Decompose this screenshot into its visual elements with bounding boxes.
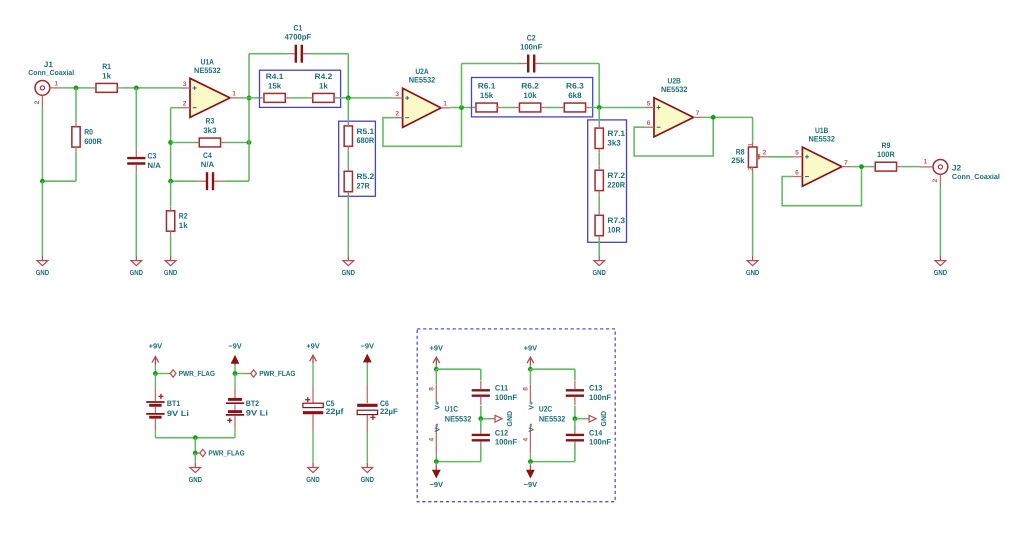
wire R3 right xyxy=(224,142,249,144)
power symbol +9V at BT1 xyxy=(149,341,163,373)
svg-text:3: 3 xyxy=(748,167,755,171)
svg-text:BT1: BT1 xyxy=(167,399,181,408)
svg-text:4: 4 xyxy=(523,438,530,442)
wire rail to pwr flag xyxy=(194,438,196,453)
svg-text:R1: R1 xyxy=(102,62,111,71)
resistor R7.2 xyxy=(595,166,626,195)
svg-text:GND: GND xyxy=(361,475,375,484)
pin 2 label J1 xyxy=(34,100,41,104)
wire C1 right xyxy=(310,53,348,55)
wire C2 right xyxy=(543,63,599,65)
wire U1B out xyxy=(851,166,871,168)
svg-text:100nF: 100nF xyxy=(495,393,517,402)
wire bottom-left to R0 xyxy=(42,180,76,182)
wire R3 left xyxy=(171,142,196,144)
wire R4.1 to R4.2 xyxy=(290,97,309,99)
resistor R0 xyxy=(72,122,102,151)
svg-text:U1C: U1C xyxy=(445,404,459,413)
wire R7.2 to R7.3 xyxy=(598,195,600,211)
op-amp U1A xyxy=(181,58,240,118)
wire C14 bottom xyxy=(574,445,576,462)
capacitor C2 xyxy=(517,34,545,73)
capacitor C4 xyxy=(196,151,224,190)
resistor R5.1 xyxy=(344,122,375,151)
wire C12 top xyxy=(480,419,482,431)
resistor R6.1 xyxy=(472,82,502,112)
resistor R1 xyxy=(92,62,122,92)
wire feedback vertical right xyxy=(248,54,250,182)
ground at R2 xyxy=(164,256,178,277)
capacitor C13 xyxy=(566,381,611,405)
node junction U1B output xyxy=(859,164,864,169)
wire R2 bottom xyxy=(170,236,172,256)
wire R4.2 to U2A xyxy=(338,97,393,99)
svg-text:R0: R0 xyxy=(84,128,93,137)
pin 1 label J1 xyxy=(54,81,58,88)
wire C2 down xyxy=(598,64,600,108)
wire R6.1 to R6.2 xyxy=(502,107,516,109)
svg-text:2: 2 xyxy=(395,111,399,118)
wire flag to GND xyxy=(194,453,196,463)
svg-text:1k: 1k xyxy=(179,221,188,230)
svg-text:C12: C12 xyxy=(495,428,509,437)
wire U1A pin2 stub xyxy=(171,107,181,109)
connector J2 Conn_Coaxial xyxy=(920,160,1000,188)
svg-text:2: 2 xyxy=(763,149,767,156)
capacitor C1 xyxy=(285,24,313,63)
svg-text:C3: C3 xyxy=(148,152,157,161)
node junction C4/R2 xyxy=(168,179,173,184)
power symbol +9V at U2C xyxy=(524,344,538,370)
wire J2 pin2 to GND xyxy=(939,187,941,256)
power flag at BT1 xyxy=(157,369,215,378)
node junction R6.3/R7 xyxy=(597,105,602,110)
svg-text:NE5532: NE5532 xyxy=(409,75,436,84)
svg-text:R9: R9 xyxy=(882,141,891,150)
svg-text:6: 6 xyxy=(795,169,799,176)
svg-text:27R: 27R xyxy=(357,182,371,191)
wire C14 to V- xyxy=(530,461,575,463)
svg-text:6k8: 6k8 xyxy=(568,91,582,100)
node junction U2A output xyxy=(459,105,464,110)
wire R5.2 to GND xyxy=(347,196,349,256)
svg-text:GND: GND xyxy=(130,268,144,277)
wire C1 left xyxy=(249,53,286,55)
wire C13 top xyxy=(574,369,576,380)
svg-text:GND: GND xyxy=(601,411,608,427)
ground arrow at U2C xyxy=(577,411,608,427)
wire R2 top xyxy=(170,181,172,206)
power symbol -9V at U2C xyxy=(524,462,538,489)
svg-text:1k: 1k xyxy=(102,71,111,80)
svg-text:1: 1 xyxy=(443,101,447,108)
wire R0 top xyxy=(75,88,77,122)
svg-text:100nF: 100nF xyxy=(589,438,611,447)
svg-text:1: 1 xyxy=(924,159,928,166)
ground at R8 xyxy=(746,256,760,277)
wire R6.2 to R6.3 xyxy=(545,107,560,109)
box around R7 group xyxy=(588,120,627,242)
node junction U2B output xyxy=(711,115,716,120)
svg-text:5: 5 xyxy=(647,100,651,107)
svg-text:R7.1: R7.1 xyxy=(607,129,625,138)
svg-text:680R: 680R xyxy=(357,136,375,145)
wire C1 down xyxy=(347,54,349,98)
wire R8 to GND xyxy=(752,173,754,256)
svg-text:9V Li: 9V Li xyxy=(167,409,189,418)
dashed box power decoupling xyxy=(417,329,615,502)
node junction rail middle xyxy=(193,435,198,440)
svg-text:3: 3 xyxy=(395,91,399,98)
battery BT2 9V Li xyxy=(226,374,268,438)
resistor R6.2 xyxy=(515,82,545,112)
svg-text:600R: 600R xyxy=(84,137,102,146)
box around R6 group xyxy=(472,78,593,117)
svg-text:−9V: −9V xyxy=(228,341,242,350)
wire C4 left xyxy=(171,180,196,182)
svg-text:V+: V+ xyxy=(435,401,442,410)
svg-text:−9V: −9V xyxy=(430,480,444,489)
wire R0 bottom xyxy=(75,152,77,182)
svg-text:9V Li: 9V Li xyxy=(246,408,268,417)
svg-text:GND: GND xyxy=(164,268,178,277)
svg-text:R6.1: R6.1 xyxy=(478,82,496,91)
svg-text:V−: V− xyxy=(529,423,536,432)
potentiometer R8 xyxy=(731,142,767,173)
ground at C5 xyxy=(306,463,320,484)
resistor R4.2 xyxy=(309,72,339,102)
power symbol +9V at U1C xyxy=(430,344,444,370)
pin 1 label J2 xyxy=(924,159,928,166)
wire R7.1 to R7.2 xyxy=(598,153,600,166)
svg-text:15k: 15k xyxy=(480,91,494,100)
svg-text:C4: C4 xyxy=(203,151,212,160)
svg-text:−9V: −9V xyxy=(524,480,538,489)
ground at C3 xyxy=(130,256,144,277)
capacitor C5 22uF xyxy=(303,370,344,463)
node junction R3 left xyxy=(168,140,173,145)
wire U2A feedback xyxy=(383,108,462,147)
capacitor C6 22uF xyxy=(357,370,398,463)
svg-text:GND: GND xyxy=(189,475,203,484)
svg-text:10k: 10k xyxy=(523,91,537,100)
box around R4 group xyxy=(260,70,341,107)
wire down to R8 xyxy=(752,117,754,141)
svg-text:BT2: BT2 xyxy=(246,399,260,408)
wire C11 to GND node xyxy=(480,406,482,419)
svg-text:4: 4 xyxy=(429,438,436,442)
svg-text:NE5532: NE5532 xyxy=(539,415,566,424)
resistor R2 xyxy=(166,207,188,236)
node junction pwr flag bottom xyxy=(193,451,198,456)
node junction U2C V+ xyxy=(528,367,533,372)
node junction U1C V+ xyxy=(434,367,439,372)
svg-text:GND: GND xyxy=(934,268,948,277)
wire C13 to GND node xyxy=(574,406,576,419)
svg-text:8: 8 xyxy=(429,387,436,391)
svg-text:NE5532: NE5532 xyxy=(194,66,221,75)
op-amp U2A xyxy=(393,67,450,128)
svg-text:R2: R2 xyxy=(179,212,188,221)
svg-text:R5.1: R5.1 xyxy=(357,127,375,136)
svg-text:GND: GND xyxy=(342,268,356,277)
node junction J1/R0/GND xyxy=(40,179,45,184)
svg-text:2: 2 xyxy=(932,179,939,183)
svg-text:100nF: 100nF xyxy=(589,393,611,402)
wire C11 top xyxy=(480,369,482,380)
wire C12 to V- xyxy=(436,461,481,463)
svg-text:NE5532: NE5532 xyxy=(445,415,472,424)
wire U2B out xyxy=(703,116,753,118)
svg-text:3: 3 xyxy=(183,81,187,88)
pin 3 label R8 xyxy=(748,167,755,171)
node junction U1C V- xyxy=(434,459,439,464)
svg-text:25k: 25k xyxy=(731,156,745,165)
pin 2 label R8 xyxy=(763,149,767,156)
svg-text:C13: C13 xyxy=(589,384,603,393)
svg-text:100nF: 100nF xyxy=(520,42,542,51)
node junction R3 right xyxy=(247,140,252,145)
svg-text:7: 7 xyxy=(844,159,848,166)
svg-text:6: 6 xyxy=(647,120,651,127)
svg-text:1k: 1k xyxy=(319,81,328,90)
svg-text:10R: 10R xyxy=(607,226,621,235)
wire U2C V+ to C13 xyxy=(530,368,575,370)
node junction BT1 top xyxy=(153,371,158,376)
svg-text:2: 2 xyxy=(183,101,187,108)
svg-text:2: 2 xyxy=(34,100,41,104)
svg-text:R5.2: R5.2 xyxy=(357,172,375,181)
svg-text:GND: GND xyxy=(36,268,50,277)
svg-text:R3: R3 xyxy=(206,117,215,126)
op-amp power unit U2C NE5532 xyxy=(523,369,566,461)
node junction U1A output xyxy=(247,96,252,101)
wire J1 pin2 down xyxy=(41,108,43,181)
capacitor C14 xyxy=(566,426,611,450)
pin 1 label R8 xyxy=(748,142,755,146)
resistor R7.3 xyxy=(595,211,626,240)
svg-text:R4.1: R4.1 xyxy=(266,72,284,81)
svg-text:PWR_FLAG: PWR_FLAG xyxy=(179,369,215,378)
svg-text:100R: 100R xyxy=(877,150,895,159)
svg-text:PWR_FLAG: PWR_FLAG xyxy=(208,449,244,458)
wire R8 wiper to U1B xyxy=(767,156,793,158)
svg-text:Conn_Coaxial: Conn_Coaxial xyxy=(28,68,74,77)
ground at R7 xyxy=(593,256,607,277)
svg-text:PWR_FLAG: PWR_FLAG xyxy=(259,369,295,378)
wire J1 pin1 to R1 xyxy=(62,87,92,89)
power symbol +9V at C5 xyxy=(306,342,320,370)
svg-text:5: 5 xyxy=(795,150,799,157)
pin 2 label J2 xyxy=(932,179,939,183)
node junction BT2 top xyxy=(233,371,238,376)
resistor R3 xyxy=(195,117,225,147)
svg-text:1: 1 xyxy=(232,91,236,98)
wire feedback vertical U1A xyxy=(170,108,172,182)
svg-text:C14: C14 xyxy=(589,428,603,437)
power symbol -9V at C6 xyxy=(361,342,375,370)
ground arrow at U1C xyxy=(483,411,514,427)
svg-text:Conn_Coaxial: Conn_Coaxial xyxy=(952,172,1000,181)
node junction C13/C14 GND xyxy=(573,416,578,421)
wire U1A out to R4 box xyxy=(239,97,259,99)
wire R6.3 to U2B xyxy=(590,107,645,109)
svg-text:7: 7 xyxy=(696,110,700,117)
op-amp U2B xyxy=(645,77,703,137)
svg-text:+9V: +9V xyxy=(524,344,538,353)
svg-text:R7.3: R7.3 xyxy=(607,216,625,225)
svg-text:R6.3: R6.3 xyxy=(566,82,584,91)
wire C4 right xyxy=(224,180,249,182)
wire R7.3 to GND xyxy=(598,240,600,256)
svg-text:22µf: 22µf xyxy=(326,407,344,416)
svg-text:+9V: +9V xyxy=(430,344,444,353)
power symbol -9V at U1C xyxy=(430,462,444,489)
svg-text:C1: C1 xyxy=(294,24,303,33)
svg-text:4700pF: 4700pF xyxy=(285,33,312,42)
node junction R5 top xyxy=(346,96,351,101)
svg-text:NE5532: NE5532 xyxy=(661,85,688,94)
svg-text:+9V: +9V xyxy=(149,341,163,350)
ground at battery rail xyxy=(189,463,203,484)
svg-text:NE5532: NE5532 xyxy=(808,135,835,144)
wire C2 left xyxy=(462,63,520,65)
capacitor C12 xyxy=(472,426,517,450)
power flag at GND rail xyxy=(197,449,244,458)
svg-text:N/A: N/A xyxy=(201,160,215,169)
wire C14 top xyxy=(574,419,576,431)
resistor R6.3 xyxy=(560,82,590,112)
svg-text:220R: 220R xyxy=(607,181,625,190)
wire junction to GND J1 xyxy=(41,181,43,256)
wire C12 bottom xyxy=(480,445,482,462)
wire battery bottom rail xyxy=(155,437,235,439)
node junction U2C V- xyxy=(528,459,533,464)
capacitor C3 xyxy=(127,149,161,173)
node junction at C3 top xyxy=(134,86,139,91)
wire U2B feedback xyxy=(634,117,713,156)
wire U2A out xyxy=(450,107,472,109)
svg-text:R4.2: R4.2 xyxy=(315,72,333,81)
node junction at R0 top xyxy=(74,86,79,91)
op-amp U1B xyxy=(793,126,851,186)
wire R9 to J2 xyxy=(901,166,920,168)
connector J1 Conn_Coaxial xyxy=(28,60,74,108)
wire U1C V+ to C11 xyxy=(436,368,481,370)
ground at C6 xyxy=(361,463,375,484)
svg-text:−9V: −9V xyxy=(361,342,375,351)
node junction C11/C12 GND xyxy=(478,416,483,421)
svg-text:15k: 15k xyxy=(268,81,282,90)
wire R5 top xyxy=(347,98,349,122)
svg-text:22µF: 22µF xyxy=(380,407,398,416)
svg-text:C2: C2 xyxy=(527,34,536,43)
op-amp power unit U1C NE5532 xyxy=(429,369,472,461)
svg-text:GND: GND xyxy=(306,475,320,484)
power flag at BT2 xyxy=(237,369,296,378)
ground at J2 xyxy=(934,256,948,277)
svg-text:100nF: 100nF xyxy=(495,438,517,447)
svg-text:+9V: +9V xyxy=(306,342,320,351)
svg-text:N/A: N/A xyxy=(148,161,162,170)
capacitor C11 xyxy=(472,381,517,405)
wire R7 top xyxy=(598,108,600,125)
resistor R4.1 xyxy=(260,72,290,102)
svg-text:V+: V+ xyxy=(529,401,536,410)
svg-text:3k3: 3k3 xyxy=(607,138,621,147)
svg-text:R6.2: R6.2 xyxy=(521,82,539,91)
svg-text:GND: GND xyxy=(593,268,607,277)
svg-text:V−: V− xyxy=(435,423,442,432)
wire R5.1 to R5.2 xyxy=(347,151,349,167)
svg-text:1: 1 xyxy=(748,142,755,146)
svg-text:GND: GND xyxy=(746,268,760,277)
wire C3 bottom xyxy=(135,173,137,256)
ground at R5 xyxy=(342,256,356,277)
wire U1B feedback xyxy=(782,167,861,206)
svg-text:8: 8 xyxy=(523,387,530,391)
resistor R9 xyxy=(871,141,901,171)
svg-text:C11: C11 xyxy=(495,384,509,393)
svg-text:R7.2: R7.2 xyxy=(607,171,625,180)
node junction C1/R4.2 xyxy=(346,96,351,101)
wire C3 top xyxy=(135,88,137,149)
ground at J1 xyxy=(36,256,50,277)
svg-text:1: 1 xyxy=(54,81,58,88)
resistor R5.2 xyxy=(344,167,375,196)
resistor R7.1 xyxy=(595,124,626,153)
svg-text:3k3: 3k3 xyxy=(203,126,217,135)
battery BT1 9V Li xyxy=(146,374,189,438)
wire C2 up-left xyxy=(461,64,463,108)
svg-text:U2C: U2C xyxy=(539,404,553,413)
wire R1 to U1A pin3 xyxy=(122,87,181,89)
power symbol -9V at BT2 xyxy=(228,341,242,373)
box around R5 group xyxy=(339,121,376,196)
svg-text:GND: GND xyxy=(507,411,514,427)
